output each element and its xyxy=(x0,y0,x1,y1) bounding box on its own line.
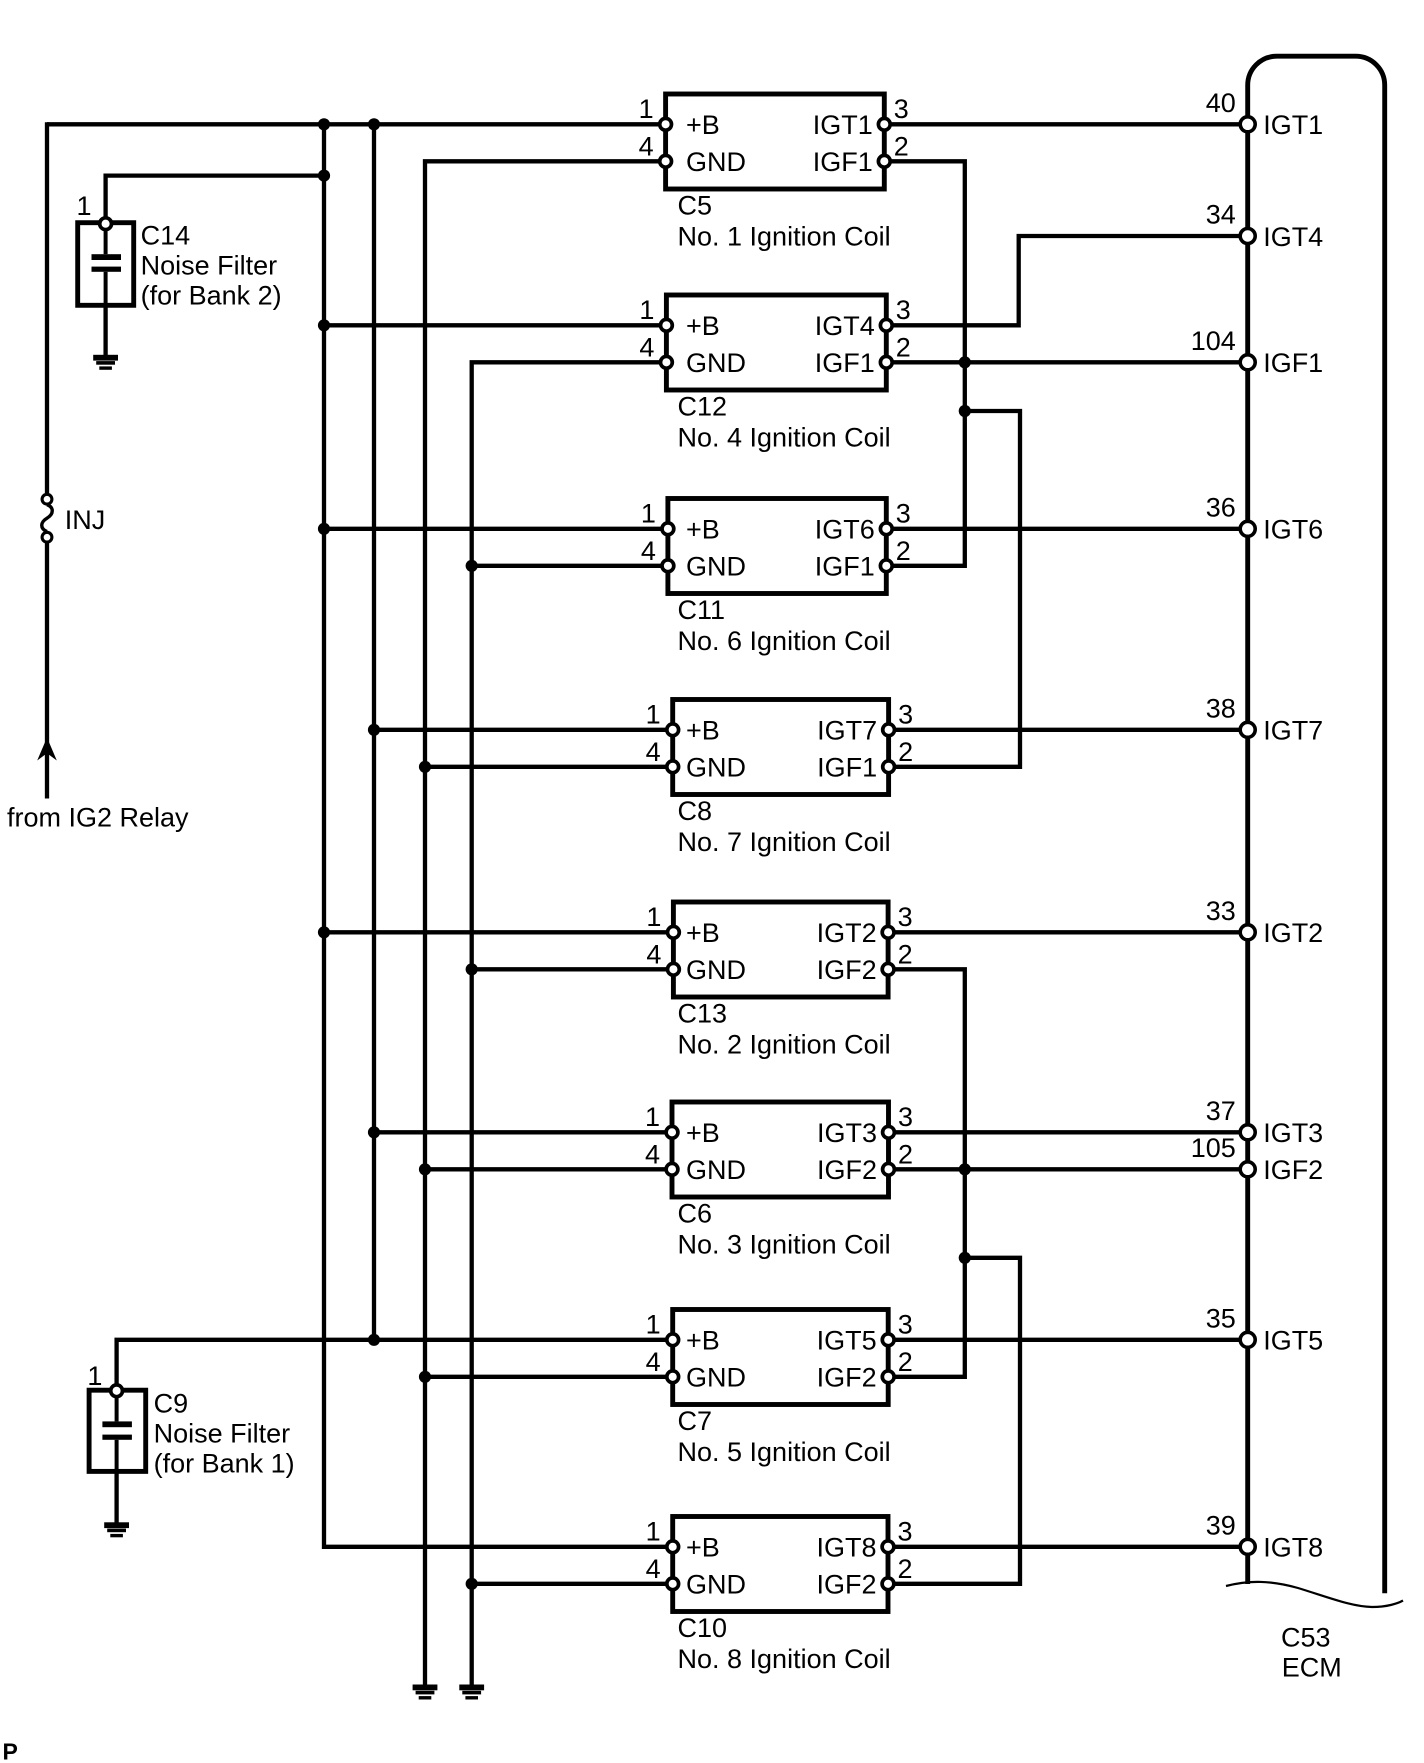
svg-text:40: 40 xyxy=(1206,88,1236,118)
svg-text:3: 3 xyxy=(898,1309,913,1339)
svg-text:4: 4 xyxy=(646,1347,661,1377)
wire: C11 pin 3 IGT6 to ECM xyxy=(886,527,1247,531)
C12 pin 3 (IGT4) circle xyxy=(880,319,892,331)
svg-text:1: 1 xyxy=(646,902,661,932)
C11 pin 3 (IGT6) circle xyxy=(880,523,892,535)
label C7 / No. 5 Ignition Coil xyxy=(678,1406,891,1467)
ignition coil C5 box xyxy=(666,94,885,189)
wire: C6 pin 4 to bus C xyxy=(425,1167,672,1171)
svg-text:2: 2 xyxy=(894,131,909,161)
svg-text:1: 1 xyxy=(645,1102,660,1132)
svg-text:GND: GND xyxy=(686,1363,746,1393)
C12 pin labels xyxy=(686,311,875,378)
C10 pin 4 (GND) circle xyxy=(667,1578,679,1590)
junction: C9/C7 rail / bus B xyxy=(368,1334,380,1346)
svg-text:Noise Filter: Noise Filter xyxy=(154,1418,291,1448)
svg-text:IGT7: IGT7 xyxy=(1263,716,1323,746)
svg-text:4: 4 xyxy=(639,131,654,161)
wire: C7 pin 3 IGT5 to ECM xyxy=(888,1338,1247,1342)
wire: C7 pin 4 to bus C xyxy=(425,1375,673,1379)
C7 pin 4 (GND) circle xyxy=(667,1371,679,1383)
C6 pin 2 (IGF2) circle xyxy=(883,1163,895,1175)
svg-text:3: 3 xyxy=(898,1102,913,1132)
junction: bus A / C11 +B xyxy=(318,523,330,535)
svg-text:4: 4 xyxy=(646,737,661,767)
wire: bus B to C8 pin 1 xyxy=(374,728,673,732)
wire: C11 pin 4 to bus D xyxy=(472,564,668,568)
svg-text:2: 2 xyxy=(898,737,913,767)
label C11 / No. 6 Ignition Coil xyxy=(678,595,891,656)
C6 pin 1 (+B) circle xyxy=(666,1126,678,1138)
C8 pin 4 (GND) circle xyxy=(667,761,679,773)
C5 pin 4 (GND) circle xyxy=(660,155,672,167)
svg-text:Noise Filter: Noise Filter xyxy=(141,250,278,280)
wire: C12 pin 4 to GND bus D xyxy=(472,362,667,1686)
ignition coil C12 box xyxy=(666,295,886,390)
junction: bus B / C6 +B xyxy=(368,1126,380,1138)
ground (C14) xyxy=(93,355,118,370)
svg-text:No. 2 Ignition Coil: No. 2 Ignition Coil xyxy=(678,1030,891,1060)
svg-text:No. 3 Ignition Coil: No. 3 Ignition Coil xyxy=(678,1230,891,1260)
ignition coil C6 box xyxy=(672,1102,889,1197)
C12 pin 4 (GND) circle xyxy=(661,356,673,368)
svg-text:IGT4: IGT4 xyxy=(1263,222,1323,252)
C13 pin 4 (GND) circle xyxy=(668,963,680,975)
svg-text:IGT2: IGT2 xyxy=(1263,918,1323,948)
svg-text:1: 1 xyxy=(639,295,654,325)
svg-text:36: 36 xyxy=(1206,492,1236,522)
svg-text:2: 2 xyxy=(898,1347,913,1377)
svg-text:C10: C10 xyxy=(678,1613,728,1643)
svg-text:IGT6: IGT6 xyxy=(815,515,875,545)
wire: C13 pin 2 IGF2 down bus V2 to C7 pin 2 xyxy=(888,969,965,1377)
C5 pin 3 (IGT1) circle xyxy=(878,118,890,130)
svg-text:GND: GND xyxy=(686,1570,746,1600)
ECM pin 40 IGT1 circle xyxy=(1240,117,1255,132)
svg-text:IGF2: IGF2 xyxy=(816,1570,876,1600)
svg-text:IGT3: IGT3 xyxy=(817,1118,877,1148)
svg-text:C53: C53 xyxy=(1281,1623,1331,1653)
svg-text:39: 39 xyxy=(1206,1510,1236,1540)
svg-text:3: 3 xyxy=(896,498,911,528)
svg-text:GND: GND xyxy=(686,348,746,378)
svg-text:C5: C5 xyxy=(678,191,713,221)
C7 pin 2 (IGF2) circle xyxy=(882,1371,894,1383)
svg-text:IGT5: IGT5 xyxy=(817,1326,877,1356)
C13 pin 1 (+B) circle xyxy=(668,926,680,938)
junction: bus D / C10 GND xyxy=(466,1578,478,1590)
svg-text:IGF2: IGF2 xyxy=(817,1363,877,1393)
svg-text:+B: +B xyxy=(686,1118,720,1148)
wire: IG2 feed vertical upper segment xyxy=(45,122,49,494)
wire: C5 pin 4 to GND bus C xyxy=(425,161,666,1686)
svg-text:GND: GND xyxy=(686,552,746,582)
svg-text:2: 2 xyxy=(898,939,913,969)
C9 pin 1 circle xyxy=(111,1385,123,1397)
ECM torn-edge wavy line xyxy=(1226,1582,1403,1607)
junction: bus D / C11 GND xyxy=(466,560,478,572)
svg-text:2: 2 xyxy=(898,1554,913,1584)
C10 pin 2 (IGF2) circle xyxy=(882,1578,894,1590)
svg-text:IGF1: IGF1 xyxy=(1263,348,1323,378)
wire: C14 noise filter feed to bus A xyxy=(106,176,324,224)
C13 pin labels xyxy=(686,918,877,985)
svg-text:No. 5 Ignition Coil: No. 5 Ignition Coil xyxy=(678,1437,891,1467)
wire: bus A to C12 pin 1 xyxy=(324,323,666,327)
ECM pin 36 IGT6 circle xyxy=(1240,521,1255,536)
svg-text:34: 34 xyxy=(1206,200,1236,230)
svg-text:3: 3 xyxy=(898,1516,913,1546)
ECM pin 35 IGT5 circle xyxy=(1240,1332,1255,1347)
svg-text:IGT5: IGT5 xyxy=(1263,1326,1323,1356)
svg-text:105: 105 xyxy=(1191,1133,1236,1163)
svg-text:No. 1 Ignition Coil: No. 1 Ignition Coil xyxy=(678,222,891,252)
wire: C10 pin 4 to bus D xyxy=(472,1582,673,1586)
svg-text:No. 7 Ignition Coil: No. 7 Ignition Coil xyxy=(678,827,891,857)
svg-text:IGF2: IGF2 xyxy=(817,1155,877,1185)
svg-text:104: 104 xyxy=(1191,326,1236,356)
ECM connector C53 outline xyxy=(1248,56,1385,1593)
junction: bus A / C13 +B xyxy=(318,926,330,938)
C6 pin numbers xyxy=(645,1102,913,1170)
svg-text:3: 3 xyxy=(898,902,913,932)
ignition coil C13 box xyxy=(673,902,888,997)
C12 pin numbers xyxy=(639,295,910,363)
C8 pin 2 (IGF1) circle xyxy=(883,761,895,773)
svg-text:IGF2: IGF2 xyxy=(817,955,877,985)
capacitor C14 noise filter box xyxy=(78,223,134,306)
svg-text:(for Bank 1): (for Bank 1) xyxy=(154,1448,295,1478)
fuse INJ xyxy=(42,494,53,542)
wire: C12 pin 3 IGT4 to ECM (jogged) xyxy=(886,236,1247,325)
wire: C13 pin 4 to bus D xyxy=(472,967,674,971)
junction: bus C / C6 GND xyxy=(419,1163,431,1175)
label C10 / No. 8 Ignition Coil xyxy=(678,1613,891,1674)
label C6 / No. 3 Ignition Coil xyxy=(678,1199,891,1260)
svg-text:C11: C11 xyxy=(678,595,726,625)
ground (bus D) xyxy=(459,1685,484,1700)
C7 pin numbers xyxy=(646,1309,913,1377)
svg-text:IGT6: IGT6 xyxy=(1263,515,1323,545)
C8 pin 1 (+B) circle xyxy=(667,724,679,736)
C8 pin numbers xyxy=(646,699,913,767)
svg-text:37: 37 xyxy=(1206,1096,1236,1126)
svg-text:IGT8: IGT8 xyxy=(816,1533,876,1563)
svg-text:INJ: INJ xyxy=(65,505,106,535)
wire: bus B (+B distribution, x=374) xyxy=(372,124,376,1340)
junction: bus D / C13 GND xyxy=(466,963,478,975)
svg-text:38: 38 xyxy=(1206,693,1236,723)
svg-text:C12: C12 xyxy=(678,392,728,422)
C5 pin numbers xyxy=(639,94,909,162)
svg-text:C7: C7 xyxy=(678,1406,713,1436)
C5 pin 1 (+B) circle xyxy=(660,118,672,130)
svg-text:No. 8 Ignition Coil: No. 8 Ignition Coil xyxy=(678,1644,891,1674)
C13 pin numbers xyxy=(646,902,912,970)
wire: bus A to C11 pin 1 xyxy=(324,527,668,531)
ground (bus C) xyxy=(413,1685,438,1700)
svg-text:C9: C9 xyxy=(154,1388,189,1418)
wire: C9 noise filter feed to C7 pin 1 rail xyxy=(117,1340,673,1391)
wire: bus A (+B distribution, x=324) down and over to C10 pin 1 xyxy=(324,124,673,1547)
svg-text:+B: +B xyxy=(686,311,720,341)
junction: top rail / bus A xyxy=(318,118,330,130)
C11 pin 1 (+B) circle xyxy=(662,523,674,535)
C5 pin labels xyxy=(686,110,873,177)
svg-text:1: 1 xyxy=(646,699,661,729)
capacitor C14 plates xyxy=(92,228,122,305)
C13 pin 2 (IGF2) circle xyxy=(882,963,894,975)
C6 pin 4 (GND) circle xyxy=(666,1163,678,1175)
svg-text:IGF1: IGF1 xyxy=(817,753,877,783)
svg-text:4: 4 xyxy=(646,939,661,969)
svg-text:1: 1 xyxy=(646,1516,661,1546)
junction: V2 / C10 branch xyxy=(959,1252,971,1264)
wire: C5 pin 2 IGF1 down bus V1 to C11 pin 2 xyxy=(884,161,965,566)
ignition coil C10 box xyxy=(673,1517,888,1612)
svg-text:3: 3 xyxy=(898,699,913,729)
junction: bus A / C12 +B xyxy=(318,319,330,331)
svg-text:C6: C6 xyxy=(678,1199,713,1229)
wire: bus A to C13 pin 1 xyxy=(324,930,673,934)
C10 pin 3 (IGT8) circle xyxy=(882,1541,894,1553)
wire: C8 pin 4 to bus C xyxy=(425,765,673,769)
svg-text:3: 3 xyxy=(896,295,911,325)
svg-text:IGT8: IGT8 xyxy=(1263,1533,1323,1563)
svg-text:2: 2 xyxy=(898,1139,913,1169)
C7 pin labels xyxy=(686,1326,877,1393)
label C8 / No. 7 Ignition Coil xyxy=(678,796,891,857)
svg-text:IGT3: IGT3 xyxy=(1263,1118,1323,1148)
junction: V2 / IGF2-ECM wire xyxy=(959,1163,971,1175)
svg-text:IGF1: IGF1 xyxy=(813,147,873,177)
svg-text:ECM: ECM xyxy=(1282,1653,1342,1683)
wire: C5 pin 3 IGT1 to ECM xyxy=(884,122,1247,126)
wire: C12 pin 2 IGF1 to ECM pin 104 xyxy=(886,360,1247,364)
arrow from IG2 Relay (up) xyxy=(37,738,57,761)
svg-text:IGT7: IGT7 xyxy=(817,716,877,746)
wire: C10 pin 3 IGT8 to ECM xyxy=(888,1545,1248,1549)
svg-text:IGT4: IGT4 xyxy=(815,311,875,341)
svg-text:33: 33 xyxy=(1206,896,1236,926)
svg-text:+B: +B xyxy=(686,716,720,746)
svg-text:IGF1: IGF1 xyxy=(815,552,875,582)
C11 pin labels xyxy=(686,515,875,582)
svg-text:C8: C8 xyxy=(678,796,713,826)
svg-text:4: 4 xyxy=(646,1554,661,1584)
junction: V1 / IGF1-ECM wire xyxy=(959,356,971,368)
C10 pin labels xyxy=(686,1533,877,1600)
wire: +B top rail from IG2 feed to C5 pin 1 xyxy=(47,122,666,126)
wire: IGF2 branch to C10 pin 2 xyxy=(888,1258,1020,1584)
capacitor C9 plates xyxy=(102,1395,131,1471)
svg-text:1: 1 xyxy=(646,1309,661,1339)
C11 pin numbers xyxy=(641,498,911,566)
svg-text:IGF2: IGF2 xyxy=(1263,1155,1323,1185)
svg-text:P: P xyxy=(3,1739,18,1763)
wire: C6 pin 2 IGF2 to ECM pin 105 xyxy=(889,1167,1248,1171)
svg-text:No. 4 Ignition Coil: No. 4 Ignition Coil xyxy=(678,423,891,453)
svg-text:IGF1: IGF1 xyxy=(815,348,875,378)
wire: bus B to C6 pin 1 xyxy=(374,1130,672,1134)
svg-text:IGT1: IGT1 xyxy=(813,110,873,140)
svg-text:1: 1 xyxy=(639,94,654,124)
C8 pin labels xyxy=(686,716,877,783)
label C5 / No. 1 Ignition Coil xyxy=(678,191,891,252)
svg-text:1: 1 xyxy=(641,498,656,528)
svg-text:GND: GND xyxy=(686,753,746,783)
C14 pin 1 circle xyxy=(100,218,112,230)
ECM pin 39 IGT8 circle xyxy=(1240,1539,1255,1554)
wire: C6 pin 3 IGT3 to ECM xyxy=(889,1130,1248,1134)
svg-text:35: 35 xyxy=(1206,1303,1236,1333)
C8 pin 3 (IGT7) circle xyxy=(883,724,895,736)
ignition coil C7 box xyxy=(673,1310,889,1405)
C12 pin 2 (IGF1) circle xyxy=(880,356,892,368)
svg-text:+B: +B xyxy=(686,515,720,545)
wire: IG2 feed vertical lower segment xyxy=(45,542,49,798)
svg-text:GND: GND xyxy=(686,955,746,985)
wire: C13 pin 3 IGT2 to ECM xyxy=(888,930,1248,934)
svg-text:1: 1 xyxy=(76,191,91,221)
svg-text:+B: +B xyxy=(686,918,720,948)
ECM pin 104 IGF1 circle xyxy=(1240,355,1255,370)
junction: bus C / C8 GND xyxy=(419,761,431,773)
svg-text:C14: C14 xyxy=(141,220,191,250)
ECM pin 105 IGF2 circle xyxy=(1240,1162,1255,1177)
C12 pin 1 (+B) circle xyxy=(661,319,673,331)
junction: bus C / C7 GND xyxy=(419,1371,431,1383)
svg-text:IGT1: IGT1 xyxy=(1263,110,1323,140)
svg-text:(for Bank 2): (for Bank 2) xyxy=(141,280,282,310)
C6 pin 3 (IGT3) circle xyxy=(883,1126,895,1138)
label C12 / No. 4 Ignition Coil xyxy=(678,392,891,453)
svg-text:IGT2: IGT2 xyxy=(817,918,877,948)
svg-text:+B: +B xyxy=(686,1533,720,1563)
junction: V1 / C8 branch xyxy=(959,405,971,417)
svg-text:GND: GND xyxy=(686,147,746,177)
svg-text:No. 6 Ignition Coil: No. 6 Ignition Coil xyxy=(678,626,891,656)
svg-text:3: 3 xyxy=(894,94,909,124)
C7 pin 3 (IGT5) circle xyxy=(882,1334,894,1346)
ECM pin 38 IGT7 circle xyxy=(1240,722,1255,737)
svg-text:C13: C13 xyxy=(678,999,728,1029)
wire: C14 to ground xyxy=(103,305,107,355)
wire: IGF1 branch to C8 pin 2 xyxy=(889,411,1020,767)
svg-text:4: 4 xyxy=(639,332,654,362)
svg-text:1: 1 xyxy=(87,1361,102,1391)
svg-text:4: 4 xyxy=(645,1139,660,1169)
capacitor C9 noise filter box xyxy=(89,1390,146,1471)
junction: top rail / bus B xyxy=(368,118,380,130)
C6 pin labels xyxy=(686,1118,877,1185)
svg-text:+B: +B xyxy=(686,1326,720,1356)
wire: C8 pin 3 IGT7 to ECM xyxy=(889,728,1248,732)
C7 pin 1 (+B) circle xyxy=(667,1334,679,1346)
ECM pin 37 IGT3 circle xyxy=(1240,1125,1255,1140)
label C13 / No. 2 Ignition Coil xyxy=(678,999,891,1060)
C10 pin 1 (+B) circle xyxy=(667,1541,679,1553)
ECM pin 33 IGT2 circle xyxy=(1240,925,1255,940)
svg-text:GND: GND xyxy=(686,1155,746,1185)
junction: bus B / C8 +B xyxy=(368,724,380,736)
svg-text:4: 4 xyxy=(641,536,656,566)
svg-text:2: 2 xyxy=(896,332,911,362)
C11 pin 4 (GND) circle xyxy=(662,560,674,572)
C11 pin 2 (IGF1) circle xyxy=(880,560,892,572)
ground (C9) xyxy=(104,1522,129,1537)
svg-text:2: 2 xyxy=(896,536,911,566)
junction: C14 feed / bus A xyxy=(318,170,330,182)
C5 pin 2 (IGF1) circle xyxy=(878,155,890,167)
C10 pin numbers xyxy=(646,1516,913,1584)
ignition coil C8 box xyxy=(673,700,889,795)
ECM pin 34 IGT4 circle xyxy=(1240,229,1255,244)
svg-text:from IG2 Relay: from IG2 Relay xyxy=(7,802,189,832)
C13 pin 3 (IGT2) circle xyxy=(882,926,894,938)
svg-text:+B: +B xyxy=(686,110,720,140)
wire: C9 to ground xyxy=(114,1471,118,1523)
ignition coil C11 box xyxy=(668,499,886,594)
